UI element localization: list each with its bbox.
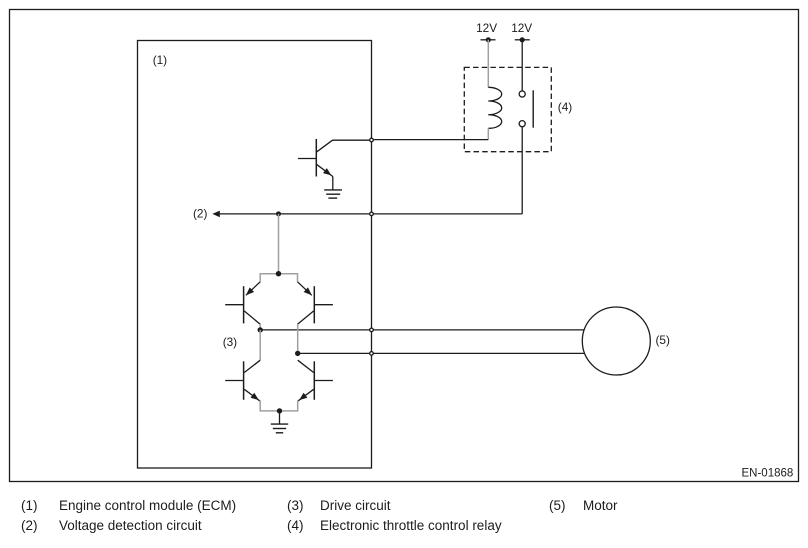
12V terminal left xyxy=(481,37,496,42)
wire junction down to H-bridge xyxy=(278,214,280,274)
wire Q1 emitter to ground xyxy=(332,177,334,190)
wire bridge bottom to ground xyxy=(279,411,281,424)
transistor Q2 (upper-left) xyxy=(225,282,260,325)
svg-text:(2): (2) xyxy=(193,207,207,221)
svg-text:12V: 12V xyxy=(511,21,532,35)
12V terminal right xyxy=(515,37,530,42)
H-bridge top rail xyxy=(260,274,297,282)
wire 12V left down to relay coil xyxy=(487,40,489,88)
ground (H-bridge) xyxy=(271,424,288,433)
junction mid-left xyxy=(258,327,263,332)
svg-text:Electronic throttle control re: Electronic throttle control relay xyxy=(320,518,502,533)
svg-text:(1): (1) xyxy=(153,53,167,67)
arrow (2) xyxy=(212,211,219,218)
svg-text:(3): (3) xyxy=(223,335,237,349)
wire mid-right corner xyxy=(297,324,299,353)
ground (Q1) xyxy=(324,190,342,198)
svg-text:(5): (5) xyxy=(549,498,566,513)
relay coil xyxy=(488,87,501,128)
svg-text:(4): (4) xyxy=(558,100,572,114)
wire 12V right down to relay switch xyxy=(521,40,523,91)
svg-text:Voltage detection circuit: Voltage detection circuit xyxy=(59,518,202,533)
wire coil to ECM pin xyxy=(372,139,489,141)
svg-text:EN-01868: EN-01868 xyxy=(742,467,794,479)
transistor Q3 (upper-right) xyxy=(298,282,333,325)
wire mid-left down to Q4 xyxy=(259,330,261,360)
wire relay switch down to (2) line xyxy=(521,127,523,214)
svg-text:(2): (2) xyxy=(21,518,38,533)
wire coil bottom stub xyxy=(487,128,489,139)
node pin at ECM edge y=353.4 xyxy=(370,352,374,356)
motor M (5) xyxy=(582,307,650,375)
node pin at ECM edge y=140 xyxy=(370,138,374,142)
junction bridge bottom xyxy=(277,408,282,413)
transistor Q5 (lower-right) xyxy=(298,360,333,401)
svg-text:(1): (1) xyxy=(21,498,38,513)
svg-text:(4): (4) xyxy=(287,518,304,533)
node pin at ECM edge y=214 xyxy=(370,212,374,216)
junction on (2) line xyxy=(276,211,281,216)
svg-text:12V: 12V xyxy=(476,21,497,35)
junction mid-right xyxy=(295,351,300,356)
svg-text:(5): (5) xyxy=(656,333,670,347)
svg-text:Drive circuit: Drive circuit xyxy=(320,498,391,513)
wire motor lower xyxy=(298,352,585,354)
H-bridge bottom rail xyxy=(260,401,298,411)
wire motor upper xyxy=(260,329,585,331)
svg-text:(3): (3) xyxy=(287,498,304,513)
node pin at ECM edge y=330 xyxy=(370,328,374,332)
relay contact bar xyxy=(532,90,534,127)
svg-text:Motor: Motor xyxy=(583,498,618,513)
wire mid-left corner xyxy=(259,324,261,330)
svg-text:Engine control module (ECM): Engine control module (ECM) xyxy=(59,498,236,513)
ECM box (1) xyxy=(138,41,372,469)
transistor Q1 xyxy=(298,139,372,177)
relay switch contact circles xyxy=(519,91,525,97)
transistor Q4 (lower-left) xyxy=(225,360,260,401)
wire (2) line xyxy=(219,213,522,215)
relay dashed box (4) xyxy=(464,67,551,151)
junction bridge top xyxy=(276,271,281,276)
